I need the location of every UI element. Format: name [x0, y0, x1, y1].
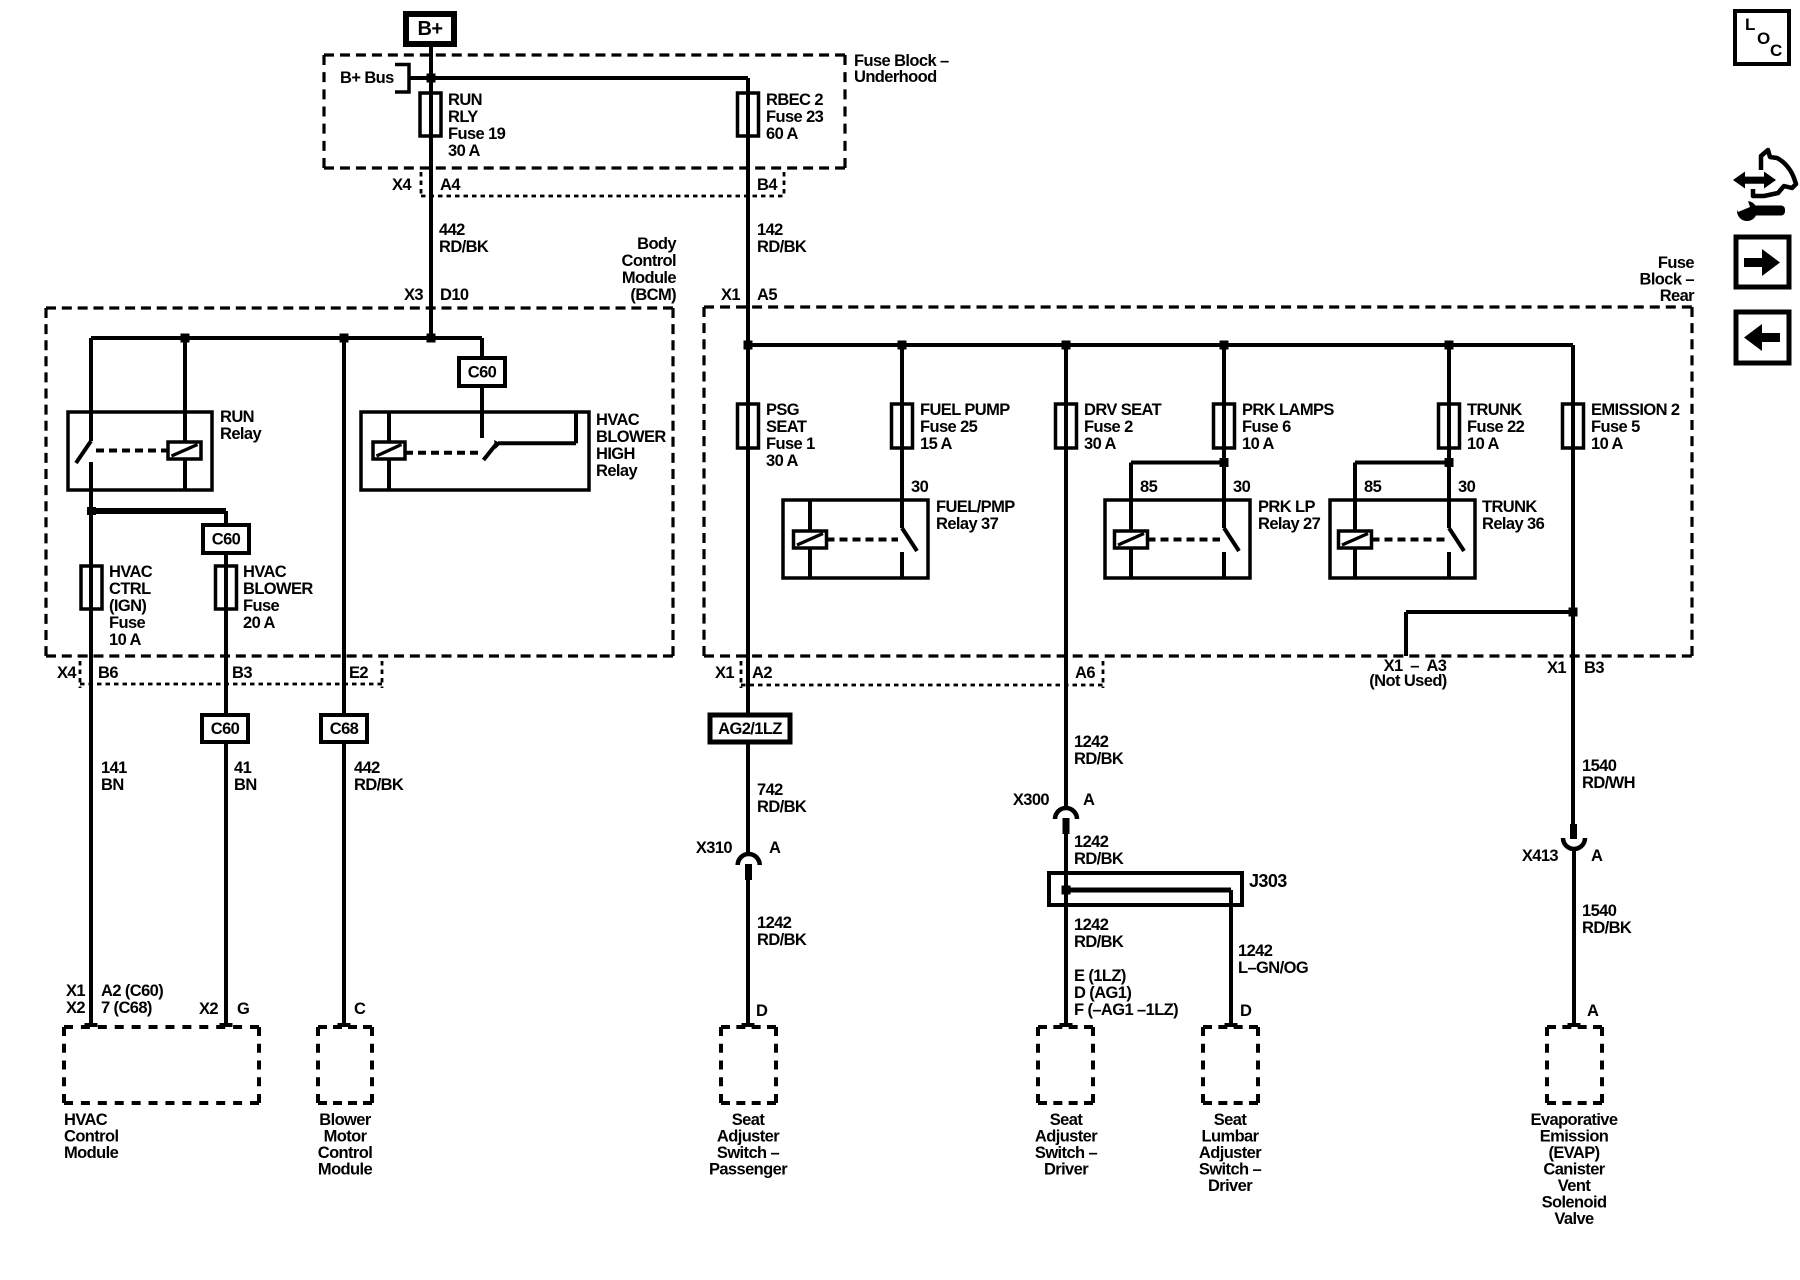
svg-text:RD/BK: RD/BK [1074, 933, 1124, 951]
svg-text:C60: C60 [211, 720, 240, 738]
svg-text:RD/BK: RD/BK [757, 931, 807, 949]
svg-text:Adjuster: Adjuster [717, 1128, 780, 1146]
svg-text:Adjuster: Adjuster [1199, 1144, 1262, 1162]
svg-text:Adjuster: Adjuster [1035, 1128, 1098, 1146]
svg-text:442: 442 [354, 759, 380, 777]
svg-text:RUN: RUN [448, 91, 482, 109]
svg-text:A4: A4 [440, 176, 461, 194]
svg-text:142: 142 [757, 221, 783, 239]
svg-text:D: D [756, 1002, 768, 1020]
svg-text:RD/BK: RD/BK [354, 776, 404, 794]
svg-text:C60: C60 [212, 531, 241, 549]
svg-text:PRK LAMPS: PRK LAMPS [1242, 401, 1334, 419]
svg-text:TRUNK: TRUNK [1467, 401, 1522, 419]
svg-text:Body: Body [637, 235, 677, 253]
svg-text:RD/WH: RD/WH [1582, 774, 1635, 792]
svg-text:Fuse 22: Fuse 22 [1467, 418, 1525, 436]
svg-text:Fuse: Fuse [243, 597, 280, 615]
svg-text:Fuse 6: Fuse 6 [1242, 418, 1291, 436]
svg-text:FUEL PUMP: FUEL PUMP [920, 401, 1010, 419]
svg-text:Relay 37: Relay 37 [936, 515, 999, 533]
svg-text:1242: 1242 [1074, 916, 1109, 934]
svg-text:Seat: Seat [1214, 1111, 1248, 1129]
svg-text:Relay: Relay [220, 425, 262, 443]
svg-text:1242: 1242 [1074, 833, 1109, 851]
svg-text:(Not Used): (Not Used) [1369, 672, 1447, 690]
svg-text:A: A [769, 839, 781, 857]
svg-text:X1: X1 [1547, 659, 1566, 677]
svg-text:BN: BN [234, 776, 257, 794]
svg-text:41: 41 [234, 759, 252, 777]
svg-text:O: O [1757, 29, 1770, 48]
svg-text:B+ Bus: B+ Bus [340, 69, 394, 87]
svg-text:Switch –: Switch – [1035, 1144, 1098, 1162]
svg-text:Evaporative: Evaporative [1531, 1111, 1618, 1129]
svg-text:Fuse 19: Fuse 19 [448, 125, 506, 143]
svg-text:Relay: Relay [596, 462, 638, 480]
svg-text:Fuse 2: Fuse 2 [1084, 418, 1133, 436]
svg-text:HVAC: HVAC [109, 563, 153, 581]
svg-text:RUN: RUN [220, 408, 254, 426]
svg-text:RD/BK: RD/BK [1074, 850, 1124, 868]
svg-text:(IGN): (IGN) [109, 597, 146, 615]
svg-text:Underhood: Underhood [854, 68, 937, 86]
svg-text:J303: J303 [1249, 871, 1287, 891]
svg-text:Fuse 25: Fuse 25 [920, 418, 978, 436]
svg-text:BN: BN [101, 776, 124, 794]
svg-text:Valve: Valve [1554, 1210, 1594, 1228]
svg-text:1242: 1242 [1238, 942, 1273, 960]
svg-text:Fuse: Fuse [1658, 254, 1695, 272]
svg-text:E (1LZ): E (1LZ) [1074, 967, 1126, 985]
svg-text:Fuse 5: Fuse 5 [1591, 418, 1640, 436]
svg-text:(BCM): (BCM) [630, 286, 676, 304]
svg-text:A5: A5 [757, 286, 777, 304]
svg-text:PSG: PSG [766, 401, 799, 419]
svg-text:E2: E2 [349, 664, 368, 682]
svg-text:Vent: Vent [1558, 1177, 1592, 1195]
svg-text:10 A: 10 A [109, 631, 142, 649]
svg-text:HIGH: HIGH [596, 445, 635, 463]
svg-text:141: 141 [101, 759, 127, 777]
svg-text:X4: X4 [57, 664, 77, 682]
svg-text:RBEC 2: RBEC 2 [766, 91, 823, 109]
svg-text:Emission: Emission [1540, 1128, 1609, 1146]
svg-text:AG2/1LZ: AG2/1LZ [718, 720, 782, 738]
svg-text:X2: X2 [66, 999, 85, 1017]
svg-text:D10: D10 [440, 286, 469, 304]
svg-text:CTRL: CTRL [109, 580, 151, 598]
svg-text:C: C [354, 1000, 366, 1018]
svg-text:HVAC: HVAC [243, 563, 287, 581]
svg-text:HVAC: HVAC [596, 411, 640, 429]
svg-text:C: C [1770, 41, 1782, 60]
svg-text:A: A [1591, 847, 1603, 865]
svg-text:G: G [237, 1000, 249, 1018]
svg-text:RD/BK: RD/BK [1582, 919, 1632, 937]
svg-text:X3: X3 [404, 286, 423, 304]
svg-text:Module: Module [622, 269, 677, 287]
svg-text:RD/BK: RD/BK [439, 238, 489, 256]
svg-text:RD/BK: RD/BK [757, 238, 807, 256]
svg-text:1540: 1540 [1582, 757, 1617, 775]
svg-text:SEAT: SEAT [766, 418, 807, 436]
svg-text:10 A: 10 A [1591, 435, 1624, 453]
svg-text:Module: Module [318, 1161, 373, 1179]
svg-text:1540: 1540 [1582, 902, 1617, 920]
svg-text:85: 85 [1140, 478, 1158, 496]
svg-text:Block –: Block – [1640, 271, 1695, 289]
svg-text:Passenger: Passenger [709, 1161, 788, 1179]
svg-text:B3: B3 [1584, 659, 1604, 677]
svg-text:BLOWER: BLOWER [243, 580, 313, 598]
svg-text:Seat: Seat [1050, 1111, 1084, 1129]
svg-text:X1: X1 [715, 664, 734, 682]
svg-text:RLY: RLY [448, 108, 478, 126]
svg-text:Relay 36: Relay 36 [1482, 515, 1545, 533]
svg-text:30 A: 30 A [766, 452, 799, 470]
svg-text:Relay 27: Relay 27 [1258, 515, 1321, 533]
svg-text:A: A [1587, 1002, 1599, 1020]
svg-text:Switch –: Switch – [717, 1144, 780, 1162]
svg-text:X300: X300 [1013, 791, 1050, 809]
svg-text:B6: B6 [98, 664, 118, 682]
svg-text:X1: X1 [721, 286, 740, 304]
svg-text:742: 742 [757, 781, 783, 799]
svg-text:A6: A6 [1075, 664, 1095, 682]
svg-text:Canister: Canister [1543, 1161, 1605, 1179]
svg-text:X413: X413 [1522, 847, 1559, 865]
svg-text:DRV SEAT: DRV SEAT [1084, 401, 1162, 419]
svg-text:X1: X1 [66, 982, 85, 1000]
svg-text:Rear: Rear [1660, 287, 1695, 305]
svg-text:D (AG1): D (AG1) [1074, 984, 1131, 1002]
svg-text:EMISSION 2: EMISSION 2 [1591, 401, 1680, 419]
svg-text:RD/BK: RD/BK [757, 798, 807, 816]
svg-text:Switch –: Switch – [1199, 1161, 1262, 1179]
svg-text:10 A: 10 A [1467, 435, 1500, 453]
svg-text:Fuse 23: Fuse 23 [766, 108, 824, 126]
svg-text:B3: B3 [232, 664, 252, 682]
svg-text:X2: X2 [199, 1000, 218, 1018]
svg-text:30: 30 [1233, 478, 1251, 496]
svg-text:B4: B4 [757, 176, 778, 194]
svg-text:L–GN/OG: L–GN/OG [1238, 959, 1308, 977]
svg-text:Control: Control [64, 1128, 118, 1146]
svg-text:60 A: 60 A [766, 125, 799, 143]
svg-text:Solenoid: Solenoid [1542, 1194, 1607, 1212]
svg-text:C60: C60 [468, 364, 497, 382]
svg-text:442: 442 [439, 221, 465, 239]
svg-text:7 (C68): 7 (C68) [101, 999, 152, 1017]
svg-text:PRK LP: PRK LP [1258, 498, 1316, 516]
svg-text:Seat: Seat [732, 1111, 766, 1129]
svg-text:L: L [1745, 15, 1755, 34]
svg-text:30: 30 [1458, 478, 1476, 496]
svg-text:Fuse: Fuse [109, 614, 146, 632]
svg-text:(EVAP): (EVAP) [1548, 1144, 1599, 1162]
svg-text:F (–AG1 –1LZ): F (–AG1 –1LZ) [1074, 1001, 1178, 1019]
svg-text:A2: A2 [752, 664, 772, 682]
svg-text:Driver: Driver [1044, 1161, 1089, 1179]
svg-text:HVAC: HVAC [64, 1111, 108, 1129]
svg-text:Control: Control [622, 252, 676, 270]
svg-text:1242: 1242 [757, 914, 792, 932]
svg-text:A2 (C60): A2 (C60) [101, 982, 163, 1000]
svg-text:D: D [1240, 1002, 1252, 1020]
svg-text:30 A: 30 A [448, 142, 481, 160]
svg-text:Motor: Motor [324, 1128, 368, 1146]
svg-text:85: 85 [1364, 478, 1382, 496]
svg-text:Control: Control [318, 1144, 372, 1162]
svg-text:TRUNK: TRUNK [1482, 498, 1537, 516]
svg-text:Blower: Blower [319, 1111, 372, 1129]
svg-text:10 A: 10 A [1242, 435, 1275, 453]
svg-text:30: 30 [911, 478, 929, 496]
svg-text:15 A: 15 A [920, 435, 953, 453]
svg-text:Lumbar: Lumbar [1202, 1128, 1260, 1146]
svg-text:30 A: 30 A [1084, 435, 1117, 453]
svg-text:X310: X310 [696, 839, 733, 857]
svg-text:BLOWER: BLOWER [596, 428, 666, 446]
svg-text:Driver: Driver [1208, 1177, 1253, 1195]
svg-text:C68: C68 [330, 720, 359, 738]
svg-text:1242: 1242 [1074, 733, 1109, 751]
svg-text:A: A [1083, 791, 1095, 809]
svg-text:B+: B+ [418, 18, 443, 40]
svg-text:FUEL/PMP: FUEL/PMP [936, 498, 1015, 516]
svg-text:RD/BK: RD/BK [1074, 750, 1124, 768]
svg-text:Module: Module [64, 1144, 119, 1162]
svg-text:X4: X4 [392, 176, 412, 194]
svg-text:Fuse 1: Fuse 1 [766, 435, 815, 453]
svg-text:20 A: 20 A [243, 614, 276, 632]
